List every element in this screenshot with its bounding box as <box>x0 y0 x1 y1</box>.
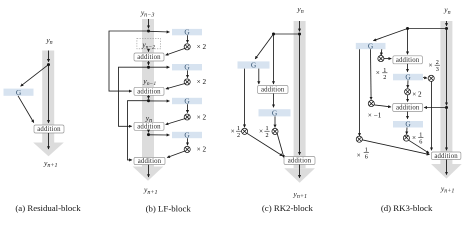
addition1 box (d) <box>393 56 423 64</box>
wire: otimes4 to addition4 (b) <box>167 151 185 158</box>
wire: final addition to output tip (c) <box>299 165 301 178</box>
svg-text:(a) Residual-block: (a) Residual-block <box>15 203 81 213</box>
wire: otimes1 to addition1 (b) <box>166 48 185 55</box>
svg-text:yn: yn <box>45 36 52 47</box>
multiplier otimes 1/6 right (d) <box>403 135 409 141</box>
wire: diagonal G to addition (a) <box>18 96 34 123</box>
svg-text:G: G <box>272 108 278 117</box>
svg-text:× 2: × 2 <box>197 146 207 154</box>
svg-text:G: G <box>184 28 190 37</box>
svg-text:G: G <box>405 120 411 129</box>
svg-text:×: × <box>259 128 263 136</box>
wire: addition3 to node4 (b) <box>148 130 150 132</box>
svg-text:2: 2 <box>383 74 386 81</box>
label x1/6 left (d) <box>357 146 369 160</box>
svg-text:3: 3 <box>436 66 439 73</box>
wire: addition4 to output tip (b) <box>148 165 150 177</box>
wire: otimes 1/6 left to final addition (d) <box>362 140 429 155</box>
block G U1 (a) <box>4 89 34 96</box>
wire: otimes2 to final addition (c) <box>277 133 284 158</box>
wire: band node2 to addition2 (d) <box>424 107 446 109</box>
svg-text:addition: addition <box>288 158 312 165</box>
node B1 junction <box>147 30 150 33</box>
wire: identity path node1 to node2 (d) <box>446 29 448 106</box>
big output arrowhead (b) <box>133 167 164 181</box>
svg-text:× 2: × 2 <box>197 78 207 86</box>
addition3 box (b) <box>134 122 164 130</box>
multiplier otimes 2 (d) <box>405 89 411 95</box>
svg-text:(c) RK2-block: (c) RK2-block <box>262 203 314 213</box>
wire: addition to output tip (a) <box>48 133 50 149</box>
dashed state box y_n-2 (b) <box>137 38 161 48</box>
wire: dashed box to addition1 (b) <box>148 49 150 52</box>
addition4 box (b) <box>134 157 165 164</box>
data band (d) <box>440 21 452 164</box>
wire: G2 k2 to otimes 2 (d) <box>407 80 409 88</box>
wire: node1 to G1 (b) <box>149 30 170 33</box>
wire: node1 to left junction (c) <box>274 33 300 35</box>
node B4 junction <box>147 133 150 136</box>
wire: G1 to otimes1 (b) <box>187 35 189 42</box>
svg-text:G: G <box>405 73 411 82</box>
multiplier otimes 2/3 (d) <box>428 75 434 81</box>
node C1 junction <box>298 33 301 36</box>
wire: G1 k1 to otimes 1/6 left (d) <box>359 49 361 136</box>
wire: node2 to G2 (b) <box>149 66 170 68</box>
node D2 junction on band <box>445 106 448 109</box>
svg-text:(d) RK3-block: (d) RK3-block <box>381 203 433 213</box>
label x2/3 (d) <box>429 59 440 73</box>
wire: addition1 to G2 (d) <box>407 64 409 72</box>
svg-text:G: G <box>368 42 374 51</box>
wire: G4 to otimes4 (b) <box>187 138 189 145</box>
svg-text:G: G <box>251 61 257 70</box>
multiplier otimes1 (b) <box>184 44 190 50</box>
svg-text:yn+1: yn+1 <box>143 185 158 196</box>
wire: G2 k2 to otimes2 (c) <box>274 116 276 127</box>
addition1 box (b) <box>134 53 164 61</box>
addition2 box (d) <box>393 104 423 112</box>
svg-text:addition: addition <box>137 124 161 131</box>
data band (b) <box>142 19 154 167</box>
big output arrowhead (c) <box>284 168 315 183</box>
multiplier otimes4 (b) <box>184 146 190 152</box>
svg-text:× 2: × 2 <box>197 113 207 121</box>
wire: G1 k1 to otimes1 (c) <box>244 69 246 128</box>
node B2 junction <box>147 66 150 69</box>
block G3 (d) <box>393 121 423 128</box>
big output arrowhead (d) <box>431 164 462 179</box>
wire: identity path node1 to final addition (c) <box>299 34 301 155</box>
block G2 (d) <box>393 74 423 81</box>
node D1 junction <box>445 27 448 30</box>
svg-text:G: G <box>184 63 190 72</box>
wire: otimes 2/3 to final addition (d) <box>431 81 433 150</box>
wire: diagonal junction to G1 (d) <box>373 29 407 41</box>
wire: y_n to addition1 (c) <box>273 34 275 84</box>
svg-text:addition: addition <box>37 126 61 133</box>
svg-text:addition: addition <box>396 105 420 112</box>
wire: diagonal junction to G1 (c) <box>255 34 273 59</box>
node B3 junction <box>147 99 150 102</box>
svg-text:× 2: × 2 <box>412 91 422 99</box>
wire: otimes3 to addition3 (b) <box>166 119 185 125</box>
wire: G1 k1 to otimes -1 (d) <box>370 49 373 99</box>
wire: input into node1 (c) <box>299 21 301 31</box>
svg-text:×: × <box>376 69 380 77</box>
svg-text:addition: addition <box>434 153 458 160</box>
addition box (a) <box>34 125 64 133</box>
label x1/2 right (c) <box>259 125 270 139</box>
label x1/2 left (c) <box>231 125 242 139</box>
svg-text:addition: addition <box>137 89 161 96</box>
wire: G2 k2 to otimes 2/3 (d) <box>423 77 427 80</box>
wire: node3 to G3 (b) <box>149 100 170 102</box>
wire: G3 to otimes3 (b) <box>187 104 189 113</box>
node C2 junction <box>272 33 275 36</box>
data band (a) <box>42 51 54 143</box>
svg-text:yn−3: yn−3 <box>140 8 155 19</box>
svg-text:G: G <box>184 97 190 106</box>
data band (c) <box>294 21 306 168</box>
svg-text:addition: addition <box>261 87 285 94</box>
block G1 (c) <box>238 61 270 68</box>
wire: G2 to otimes2 (b) <box>187 70 189 77</box>
svg-text:yn+1: yn+1 <box>440 184 455 195</box>
block G1 (d) <box>356 43 386 49</box>
big output arrowhead (a) <box>33 143 64 157</box>
wire: node4 to G4 (b) <box>149 134 170 136</box>
svg-text:addition: addition <box>396 57 420 64</box>
wire: otimes -1 to addition2 (d) <box>374 105 391 107</box>
multiplier otimes2 (b) <box>184 79 190 85</box>
svg-text:6: 6 <box>419 138 422 145</box>
svg-text:×: × <box>412 134 416 142</box>
wire: bypass node2 to addition3 (b) <box>119 67 149 126</box>
svg-text:6: 6 <box>365 153 368 160</box>
label x1/6 right (d) <box>412 131 423 145</box>
wire: identity path node2 to final addition (d) <box>446 108 448 151</box>
svg-text:yn: yn <box>296 5 303 16</box>
svg-text:× −1: × −1 <box>368 112 382 120</box>
wire: otimes 1/2 to addition1 (d) <box>384 58 392 60</box>
multiplier otimes2 (c) <box>272 128 278 134</box>
block G2 (b) <box>172 64 202 70</box>
wire: y_n junction to addition1 (d) <box>407 29 409 55</box>
multiplier otimes 1/2 (d) <box>378 56 384 62</box>
svg-text:addition: addition <box>137 54 161 61</box>
svg-text:2: 2 <box>237 132 240 139</box>
wire: otimes 2 to addition2 (d) <box>407 95 409 102</box>
wire: input into node1 (b) <box>148 19 150 28</box>
wire: G1 k1 to otimes 1/2 (d) <box>380 49 383 55</box>
svg-text:× 2: × 2 <box>197 43 207 51</box>
wire: otimes1 to final addition (c) <box>247 133 283 156</box>
wire: otimes2 to addition2 (b) <box>166 84 185 89</box>
wire: input into node (a) <box>48 51 50 62</box>
wire: diagonal node to G (a) <box>21 65 49 87</box>
node D3 junction <box>406 27 409 30</box>
svg-text:×: × <box>357 151 361 159</box>
wire: bypass node1 to addition2 (b) <box>109 31 149 91</box>
wire: final addition to output tip (d) <box>446 160 448 175</box>
wire: identity path node to addition (a) <box>48 65 50 123</box>
wire: input into node1 (d) <box>446 21 448 26</box>
block G4 (b) <box>172 132 202 138</box>
label x1/2 (d) <box>376 67 388 81</box>
addition2 box (b) <box>134 87 164 95</box>
svg-text:(b) LF-block: (b) LF-block <box>146 203 192 213</box>
block G1 (b) <box>172 29 202 35</box>
svg-text:yn+1: yn+1 <box>293 189 308 200</box>
wire: G1 k1 to addition1 (c) <box>258 69 260 84</box>
block G3 (b) <box>172 98 202 104</box>
wire: addition2 to G3 (d) <box>407 112 409 119</box>
wire: G3 k3 to otimes 1/6 right (d) <box>406 128 408 135</box>
multiplier otimes -1 (d) <box>368 101 374 107</box>
wire: addition1 to G2 (c) <box>273 94 275 108</box>
wire: node1 to left junction (d) <box>408 28 447 30</box>
block G2 (c) <box>259 109 291 116</box>
wire: addition1 to node2 (b) <box>148 61 150 65</box>
multiplier otimes1 (c) <box>242 128 248 134</box>
svg-text:addition: addition <box>138 158 162 165</box>
final addition box (d) <box>431 152 461 160</box>
svg-text:×: × <box>429 62 433 70</box>
svg-text:G: G <box>16 88 22 97</box>
svg-text:×: × <box>231 128 235 136</box>
wire: bypass node3 to addition4 (b) <box>128 101 149 160</box>
multiplier otimes 1/6 left (d) <box>356 136 362 142</box>
svg-text:G: G <box>184 131 190 140</box>
wire: addition2 to node3 (b) <box>148 95 150 98</box>
svg-text:yn+1: yn+1 <box>43 158 58 169</box>
svg-text:yn: yn <box>443 5 450 16</box>
final addition box (c) <box>284 157 315 165</box>
node A1 junction <box>47 63 50 66</box>
svg-text:2: 2 <box>265 132 268 139</box>
multiplier otimes3 (b) <box>184 114 190 120</box>
addition1 box (c) <box>258 86 289 94</box>
wire: otimes 1/6 right to final addition (d) <box>409 140 430 153</box>
